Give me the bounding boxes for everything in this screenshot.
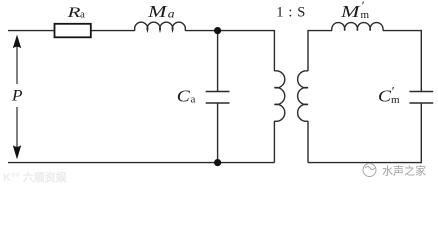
svg-text:1 : S: 1 : S (276, 5, 306, 21)
wire inductor Ma to node A (185, 30, 218, 32)
watermark bottom-right logo (363, 164, 376, 177)
wire node A to transformer primary top corner (218, 31, 275, 71)
node B junction dot (214, 159, 221, 166)
wire capacitor Cm to bottom-right corner (308, 103, 421, 163)
wire top-left segment (8, 30, 55, 32)
capacitor Cm (409, 92, 433, 104)
svg-text:C: C (177, 87, 191, 106)
wire inductor Mm to right corner down to capacitor Cm (383, 31, 421, 91)
arrow P shaft lower (16, 107, 18, 147)
svg-text:a: a (168, 9, 175, 21)
arrow P down head (13, 145, 21, 159)
svg-text:m: m (361, 9, 370, 21)
inductor Mm (332, 23, 383, 31)
capacitor Ca (206, 92, 230, 104)
svg-text:m: m (391, 94, 400, 106)
svg-text:K°° 六顺资娱: K°° 六顺资娱 (3, 170, 68, 184)
wire bottom-left (8, 162, 274, 164)
transformer secondary winding (298, 71, 308, 122)
wire resistor to inductor Ma (91, 30, 135, 32)
svg-text:a: a (191, 93, 196, 105)
arrow P shaft upper (16, 46, 18, 84)
svg-text:M: M (147, 2, 169, 21)
svg-text:R: R (66, 5, 80, 21)
wire capacitor Ca to bottom node B (217, 103, 219, 163)
inductor Ma (135, 22, 186, 30)
svg-text:a: a (80, 9, 85, 21)
wire transformer secondary bottom (307, 121, 309, 163)
svg-text:P: P (11, 88, 23, 105)
svg-text:水声之家: 水声之家 (382, 164, 426, 178)
resistor Ra (55, 24, 91, 38)
node A junction dot (214, 27, 221, 34)
wire node A down to capacitor Ca (217, 31, 219, 91)
svg-text:M: M (340, 2, 362, 21)
transformer primary winding (274, 71, 284, 121)
wire transformer secondary top corner (308, 31, 332, 71)
wire transformer primary bottom (273, 121, 275, 163)
arrow P up head (13, 35, 21, 49)
